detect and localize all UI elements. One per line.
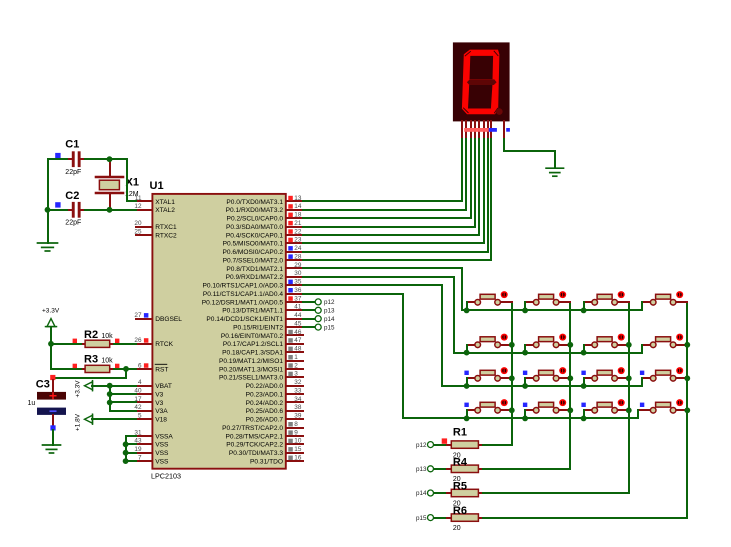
wire p14 to R5 xyxy=(434,492,447,494)
pin 4 VBAT (left) xyxy=(136,379,172,390)
pin 41 P0.13/DTR1/MAT1.1 (right) xyxy=(222,304,303,315)
pin 9 P0.28/TMS/CAP2.1 (right) xyxy=(225,429,303,440)
svg-text:P0.23/AD0.1: P0.23/AD0.1 xyxy=(246,392,284,399)
svg-text:P0.11/CTS1/CAP1.1/AD0.4: P0.11/CTS1/CAP1.1/AD0.4 xyxy=(203,291,283,298)
svg-text:VSS: VSS xyxy=(155,459,169,466)
pin 48 P0.18/CAP1.3/SDA1 (right) xyxy=(222,346,303,357)
ground (crystal) xyxy=(38,243,58,251)
pin 22 P0.4/SCK0/CAP0.1 (right) xyxy=(226,228,303,239)
wire display seg1 to MCU xyxy=(303,139,462,201)
svg-text:P0.21/SSEL1/MAT3.0: P0.21/SSEL1/MAT3.0 xyxy=(219,375,283,382)
wire +3.3V arrow to rail xyxy=(92,385,110,387)
svg-text:VBAT: VBAT xyxy=(155,383,172,390)
pin 15 P0.30/TDI/MAT3.3 (right) xyxy=(229,446,303,457)
svg-text:p15: p15 xyxy=(416,515,427,522)
svg-text:P0.24/AD0.2: P0.24/AD0.2 xyxy=(246,400,284,407)
wire display seg4 to MCU xyxy=(303,139,475,227)
pin 37 P0.12/DSR1/MAT1.0/AD0.5 (right) xyxy=(202,295,303,306)
push button SW10 (row3 col2) xyxy=(525,367,570,381)
svg-text:2: 2 xyxy=(294,362,298,369)
svg-text:V18: V18 xyxy=(155,417,167,424)
svg-text:R3: R3 xyxy=(84,353,98,365)
svg-text:44: 44 xyxy=(294,312,302,319)
svg-text:p13: p13 xyxy=(416,466,427,473)
junction +3.3V/R2 xyxy=(48,341,54,347)
node marker C1 left (blue) xyxy=(55,153,60,158)
resistor R3 10k xyxy=(81,353,114,372)
svg-text:7: 7 xyxy=(138,455,142,462)
wire button r2c4 elbow xyxy=(641,345,643,353)
display state bar (blue) xyxy=(489,128,497,132)
display state bar (red) xyxy=(464,128,489,132)
junction row2 col2 xyxy=(522,350,528,356)
svg-text:22pF: 22pF xyxy=(65,169,81,176)
wire button r3c3 elbow xyxy=(583,378,585,386)
svg-text:3: 3 xyxy=(294,371,298,378)
wire keypad row 2 xyxy=(454,352,642,354)
svg-text:32: 32 xyxy=(294,379,302,386)
svg-text:4: 4 xyxy=(138,379,142,386)
terminal p13 (bottom) xyxy=(416,466,434,473)
junction col4 row3 right xyxy=(684,375,690,381)
op-amp U1 body (LPC2103 MCU) xyxy=(152,194,285,469)
wire display seg2 to MCU xyxy=(303,139,466,210)
display pin stubs xyxy=(462,121,504,139)
wire p15 to R6 xyxy=(434,517,447,519)
svg-text:48: 48 xyxy=(294,346,302,353)
7-segment digit 0 xyxy=(462,50,503,115)
svg-text:P0.31/TDO: P0.31/TDO xyxy=(250,459,283,466)
wire C1 right to X1 node xyxy=(85,158,110,160)
pin 7 VSS (left) xyxy=(136,455,169,466)
junction VSS pin19 xyxy=(123,450,129,456)
node marker r4c3 (blue) xyxy=(581,403,585,407)
junction col2 row4 right xyxy=(567,407,573,413)
push button SW3 (row1 col3) xyxy=(584,291,629,305)
junction row2 col1 xyxy=(464,350,470,356)
junction col2 row2 right xyxy=(567,342,573,348)
wire button r2c2 elbow xyxy=(524,345,526,353)
wire button r1c4 elbow xyxy=(641,302,643,310)
wire R6 to column 4 xyxy=(483,517,687,519)
svg-text:p12: p12 xyxy=(324,299,335,306)
svg-text:28: 28 xyxy=(294,253,302,260)
pin 24 P0.6/MOSI0/CAP0.2 (right) xyxy=(223,245,303,256)
junction R3/RST/C3 xyxy=(123,366,129,372)
junction col3 row4 right xyxy=(626,407,632,413)
wire +3.3V to R3 xyxy=(51,368,81,370)
wire MCU pin row4 feed xyxy=(303,294,403,418)
svg-text:RTXC1: RTXC1 xyxy=(155,224,177,231)
push button SW4 (row1 col4) xyxy=(642,291,687,305)
wire button r2c3 elbow xyxy=(583,345,585,353)
svg-text:P0.16/EINT0/MAT0.2: P0.16/EINT0/MAT0.2 xyxy=(221,333,284,340)
svg-text:P0.25/AD0.6: P0.25/AD0.6 xyxy=(246,408,284,415)
svg-text:47: 47 xyxy=(294,337,302,344)
junction row1 col1 xyxy=(464,308,470,314)
svg-text:21: 21 xyxy=(294,220,302,227)
push button SW5 (row2 col1) xyxy=(467,334,512,348)
svg-text:p14: p14 xyxy=(324,316,335,323)
svg-text:V3: V3 xyxy=(155,400,163,407)
wire keypad column 2 xyxy=(569,302,571,469)
junction col1 row4 right xyxy=(509,407,515,413)
pin 39 P0.26/AD0.7 (right) xyxy=(246,413,303,424)
svg-text:VSS: VSS xyxy=(155,442,169,449)
svg-text:C1: C1 xyxy=(65,139,79,151)
ground (C3) xyxy=(43,445,61,453)
junction col4 row4 right xyxy=(684,407,690,413)
wire button r3c1 elbow xyxy=(466,378,468,386)
wire left rail down xyxy=(47,159,49,243)
wire R2 to RTCK pin xyxy=(114,343,136,345)
wire button r3c2 elbow xyxy=(524,378,526,386)
wire MCU pin row1 feed xyxy=(303,268,462,310)
svg-text:P0.6/MOSI0/CAP0.2: P0.6/MOSI0/CAP0.2 xyxy=(223,249,284,256)
svg-text:P0.3/SDA0/MAT0.0: P0.3/SDA0/MAT0.0 xyxy=(226,224,283,231)
svg-text:10k: 10k xyxy=(101,357,113,364)
svg-text:10k: 10k xyxy=(101,333,113,340)
svg-text:37: 37 xyxy=(294,295,302,302)
wire button r1c3 elbow xyxy=(583,302,585,310)
node marker R3 left (red) xyxy=(73,364,77,368)
svg-text:25: 25 xyxy=(134,228,142,235)
wire button r3c4 elbow xyxy=(641,378,643,386)
value LPC2103 xyxy=(151,472,181,481)
svg-text:P0.30/TDI/MAT3.3: P0.30/TDI/MAT3.3 xyxy=(229,450,283,457)
svg-text:p13: p13 xyxy=(324,308,335,315)
pin 29 P0.8/TXD1/MAT2.1 (right) xyxy=(226,262,303,273)
svg-text:22pF: 22pF xyxy=(65,219,81,226)
svg-text:6: 6 xyxy=(138,362,142,369)
pin 47 P0.17/CAP1.2/SCL1 (right) xyxy=(223,337,303,348)
svg-text:P0.0/TXD0/MAT3.1: P0.0/TXD0/MAT3.1 xyxy=(226,199,283,206)
wire display seg3 to MCU xyxy=(303,139,471,218)
wire C1 left rail xyxy=(48,158,67,160)
svg-text:24: 24 xyxy=(294,245,302,252)
terminal p15 (bottom) xyxy=(416,515,434,522)
svg-text:34: 34 xyxy=(294,396,302,403)
wire display common to ground xyxy=(504,139,555,168)
svg-text:16: 16 xyxy=(294,455,302,462)
junction col3 row3 right xyxy=(626,375,632,381)
svg-text:R5: R5 xyxy=(453,481,467,493)
svg-text:P0.15/RI1/EINT2: P0.15/RI1/EINT2 xyxy=(233,325,283,332)
pin 20 RTXC1 (left) xyxy=(134,220,177,231)
junction V3 pin40 xyxy=(107,391,113,397)
junction row4 col3 xyxy=(581,416,587,422)
svg-text:P0.4/SCK0/CAP0.1: P0.4/SCK0/CAP0.1 xyxy=(226,232,284,239)
svg-text:9: 9 xyxy=(294,429,298,436)
wire button r4c1 elbow xyxy=(466,410,468,418)
node marker R1 left (red) xyxy=(442,438,447,443)
wire rail to V3 pin40 xyxy=(110,393,136,395)
node marker r3c2 (blue) xyxy=(523,371,527,375)
junction col1 row3 right xyxy=(509,375,515,381)
svg-text:+3.3V: +3.3V xyxy=(42,307,60,314)
push button SW14 (row4 col2) xyxy=(525,399,570,413)
svg-text:p14: p14 xyxy=(416,490,427,497)
pin 19 VSS (left) xyxy=(134,446,169,457)
pin 28 P0.7/SSEL0/MAT2.0 (right) xyxy=(223,253,303,264)
wire button r1c1 elbow xyxy=(466,302,468,310)
pin 5 V18 (left) xyxy=(136,413,167,424)
label U1 xyxy=(150,180,164,192)
svg-text:+1.8V: +1.8V xyxy=(75,413,82,431)
svg-text:VSS: VSS xyxy=(155,450,169,457)
pin 11 XTAL1 (left) xyxy=(135,195,175,206)
svg-text:V3A: V3A xyxy=(155,408,168,415)
svg-text:8: 8 xyxy=(294,421,298,428)
pin 44 P0.14/DCD1/SCK1/EINT1 (right) xyxy=(206,312,303,323)
pin 26 RTCK (left) xyxy=(134,337,173,348)
svg-text:P0.2/SCL0/CAP0.0: P0.2/SCL0/CAP0.0 xyxy=(227,216,284,223)
pin 21 P0.3/SDA0/MAT0.0 (right) xyxy=(226,220,303,231)
junction left rail C2 xyxy=(45,207,51,213)
pin 14 P0.1/RXD0/MAT3.2 (right) xyxy=(226,203,303,214)
svg-text:VSSA: VSSA xyxy=(155,433,173,440)
resistor R1 20 xyxy=(447,426,483,459)
junction row2 col3 xyxy=(581,350,587,356)
svg-text:35: 35 xyxy=(294,279,302,286)
wire keypad row 1 xyxy=(462,309,642,311)
power terminal +3.3V (up arrow) xyxy=(46,319,57,327)
resistor R2 10k xyxy=(81,329,114,347)
pin 18 P0.2/SCL0/CAP0.0 (right) xyxy=(227,212,303,223)
svg-text:33: 33 xyxy=(294,388,302,395)
push button SW8 (row2 col4) xyxy=(642,334,687,348)
junction row1 col3 xyxy=(581,308,587,314)
svg-text:20: 20 xyxy=(453,525,461,532)
junction row4 col2 xyxy=(522,416,528,422)
node marker r4c1 (blue) xyxy=(464,403,468,407)
svg-text:10: 10 xyxy=(294,438,302,445)
svg-text:13: 13 xyxy=(294,195,302,202)
pin 2 P0.20/MAT1.3/MOSI1 (right) xyxy=(219,362,303,373)
junction col3 row2 right xyxy=(626,342,632,348)
capacitor C1 xyxy=(65,139,86,176)
junction VSS pin43 xyxy=(123,441,129,447)
wire display seg5 to MCU xyxy=(303,139,479,235)
svg-text:XTAL1: XTAL1 xyxy=(155,199,175,206)
wire RST junction down to C3 xyxy=(53,369,126,378)
wire +3.3V rail down xyxy=(50,327,52,369)
svg-text:P0.27/TRST/CAP2.0: P0.27/TRST/CAP2.0 xyxy=(222,425,283,432)
svg-text:46: 46 xyxy=(294,329,302,336)
wire MCU pin row2 feed xyxy=(303,277,454,353)
svg-text:R2: R2 xyxy=(84,329,98,341)
junction X1 bottom xyxy=(107,207,113,213)
svg-text:22: 22 xyxy=(294,228,302,235)
svg-text:38: 38 xyxy=(294,404,302,411)
svg-text:15: 15 xyxy=(294,446,302,453)
node marker r3c4 (blue) xyxy=(640,371,644,375)
pin 3 P0.21/SSEL1/MAT3.0 (right) xyxy=(219,371,303,382)
wire VSS pin19 xyxy=(126,452,136,454)
junction row3 col2 xyxy=(522,383,528,389)
pin 33 P0.23/AD0.1 (right) xyxy=(246,388,303,399)
push button SW2 (row1 col2) xyxy=(525,291,570,305)
junction VBAT xyxy=(107,383,113,389)
wire button r4c3 elbow xyxy=(583,410,585,418)
wire power rail verticals xyxy=(110,386,136,411)
node marker R2 right (red) xyxy=(115,339,119,343)
pin 38 P0.25/AD0.6 (right) xyxy=(246,404,303,415)
wire C2 row xyxy=(48,209,67,211)
svg-text:RTCK: RTCK xyxy=(155,341,173,348)
wire button r2c1 elbow xyxy=(466,345,468,353)
wire C2 right to XTAL2 xyxy=(85,209,136,211)
junction V3 pin17 xyxy=(107,400,113,406)
push button SW9 (row3 col1) xyxy=(467,367,512,381)
svg-text:P0.8/TXD1/MAT2.1: P0.8/TXD1/MAT2.1 xyxy=(226,266,283,273)
pin 30 P0.9/RXD1/MAT2.2 (right) xyxy=(226,270,303,281)
svg-text:P0.26/AD0.7: P0.26/AD0.7 xyxy=(246,417,284,424)
svg-text:XTAL2: XTAL2 xyxy=(155,207,175,214)
power terminal +1.8V (left arrow) xyxy=(85,414,93,424)
pin 12 XTAL2 (left) xyxy=(134,203,175,214)
svg-text:P0.13/DTR1/MAT1.1: P0.13/DTR1/MAT1.1 xyxy=(222,308,283,315)
node marker r4c4 (blue) xyxy=(640,403,644,407)
node marker C3 top (red) xyxy=(50,375,55,380)
node marker r3c1 (blue) xyxy=(464,371,468,375)
junction X1 top xyxy=(107,156,113,162)
pin 1 P0.19/MAT1.2/MISO1 (right) xyxy=(219,354,303,365)
node marker r3c3 (blue) xyxy=(581,371,585,375)
junction col4 row2 right xyxy=(684,342,690,348)
wire +3.3V to R2 xyxy=(51,343,81,345)
7-segment display body xyxy=(453,42,510,121)
pin 32 P0.22/AD0.0 (right) xyxy=(246,379,303,390)
junction VSS pin7 xyxy=(123,458,129,464)
node marker R2 left (red) xyxy=(73,339,77,343)
pin 42 V3A (left) xyxy=(134,404,168,415)
svg-text:LPC2103: LPC2103 xyxy=(151,472,181,481)
display common marker (blue) xyxy=(506,128,510,132)
terminal p12 (bottom) xyxy=(416,442,434,449)
wire keypad row 4 xyxy=(403,417,638,419)
svg-text:23: 23 xyxy=(294,237,302,244)
svg-text:1u: 1u xyxy=(28,400,36,407)
power +3.3V label xyxy=(42,307,60,314)
wire p12 to R1 xyxy=(434,444,447,446)
junction col1 row2 right xyxy=(509,342,515,348)
wire X1 node to XTAL1 pin xyxy=(110,159,136,201)
capacitor C2 xyxy=(65,190,86,226)
svg-text:V3: V3 xyxy=(155,392,163,399)
svg-text:P0.5/MISO0/MAT0.1: P0.5/MISO0/MAT0.1 xyxy=(223,241,284,248)
pin 13 P0.0/TXD0/MAT3.1 (right) xyxy=(226,195,303,206)
svg-text:P0.10/RTS1/CAP1.0/AD0.3: P0.10/RTS1/CAP1.0/AD0.3 xyxy=(202,283,283,290)
svg-text:P0.1/RXD0/MAT3.2: P0.1/RXD0/MAT3.2 xyxy=(226,207,284,214)
pin 25 RTXC2 (left) xyxy=(134,228,177,239)
svg-text:P0.14/DCD1/SCK1/EINT1: P0.14/DCD1/SCK1/EINT1 xyxy=(206,316,283,323)
resistor R5 20 xyxy=(447,481,483,508)
push button SW12 (row3 col4) xyxy=(642,367,687,381)
pin 43 VSS (left) xyxy=(134,438,169,449)
svg-text:P0.20/MAT1.3/MOSI1: P0.20/MAT1.3/MOSI1 xyxy=(219,366,283,373)
push button SW15 (row4 col3) xyxy=(584,399,629,413)
pin 40 V3 (left) xyxy=(134,388,163,399)
wire R4 to column 2 xyxy=(483,468,570,470)
ground (display) xyxy=(546,168,563,176)
node marker C2 left (blue) xyxy=(55,202,60,207)
wire C3 to ground xyxy=(52,430,54,445)
terminal p14 xyxy=(303,316,335,323)
svg-text:RTXC2: RTXC2 xyxy=(155,232,177,239)
terminal p15 xyxy=(303,324,335,331)
label +3.3V rotated xyxy=(75,380,82,398)
svg-text:p15: p15 xyxy=(324,324,335,331)
wire keypad column 1 xyxy=(511,302,513,445)
push button SW6 (row2 col2) xyxy=(525,334,570,348)
svg-text:30: 30 xyxy=(294,270,302,277)
wire keypad column 4 xyxy=(686,302,688,518)
wire display seg6 to MCU xyxy=(303,139,484,243)
pin 8 P0.27/TRST/CAP2.0 (right) xyxy=(222,421,303,432)
push button SW13 (row4 col1) xyxy=(467,399,512,413)
pin 34 P0.24/AD0.2 (right) xyxy=(246,396,303,407)
svg-text:C3: C3 xyxy=(36,379,50,391)
node marker r4c2 (blue) xyxy=(523,403,527,407)
node marker R3 right (red) xyxy=(115,364,119,368)
terminal p14 (bottom) xyxy=(416,490,434,497)
push button SW11 (row3 col3) xyxy=(584,367,629,381)
svg-text:+3.3V: +3.3V xyxy=(75,380,82,398)
wire MCU pin row3 feed xyxy=(303,285,442,386)
svg-text:P0.12/DSR1/MAT1.0/AD0.5: P0.12/DSR1/MAT1.0/AD0.5 xyxy=(202,299,284,306)
wire button r4c2 elbow xyxy=(524,410,526,418)
pin 27 DBGSEL (left) xyxy=(134,312,182,323)
pin 6 RST (left) xyxy=(136,362,168,373)
svg-text:P0.17/CAP1.2/SCL1: P0.17/CAP1.2/SCL1 xyxy=(223,341,283,348)
wire +1.8V to V18 pin xyxy=(92,418,136,420)
wire R3 to RST pin xyxy=(114,368,136,370)
svg-text:DBGSEL: DBGSEL xyxy=(155,316,182,323)
push button SW7 (row2 col3) xyxy=(584,334,629,348)
pin 23 P0.5/MISO0/MAT0.1 (right) xyxy=(223,237,303,248)
junction col2 row3 right xyxy=(567,375,573,381)
wire keypad row 3 xyxy=(442,385,642,387)
pin 31 VSSA (left) xyxy=(134,429,173,440)
power terminal +3.3V (left arrow) xyxy=(85,381,93,391)
resistor R6 20 xyxy=(447,505,483,532)
wire display seg7 to MCU xyxy=(303,139,488,252)
wire display seg8 to MCU xyxy=(303,139,491,260)
pin 45 P0.15/RI1/EINT2 (right) xyxy=(233,321,303,332)
svg-text:RST: RST xyxy=(155,366,168,373)
svg-text:29: 29 xyxy=(294,262,302,269)
svg-text:p12: p12 xyxy=(416,442,427,449)
svg-text:C2: C2 xyxy=(65,190,79,202)
wire button r4c4 elbow xyxy=(637,410,639,418)
svg-text:P0.19/MAT1.2/MISO1: P0.19/MAT1.2/MISO1 xyxy=(219,358,283,365)
svg-text:36: 36 xyxy=(294,287,302,294)
push button SW16 (row4 col4) xyxy=(638,399,687,413)
junction row1 col2 xyxy=(522,308,528,314)
wire R5 to column 3 xyxy=(483,492,629,494)
svg-text:14: 14 xyxy=(294,203,302,210)
capacitor C3 1u (polarized) xyxy=(28,379,67,426)
svg-text:5: 5 xyxy=(138,413,142,420)
pin 35 P0.10/RTS1/CAP1.0/AD0.3 (right) xyxy=(202,279,303,290)
svg-text:20: 20 xyxy=(134,220,142,227)
junction row3 col3 xyxy=(581,383,587,389)
wire button r1c2 elbow xyxy=(524,302,526,310)
svg-text:39: 39 xyxy=(294,413,302,420)
wire rail to V3 pin17 xyxy=(110,401,136,403)
terminal p13 xyxy=(303,307,335,314)
